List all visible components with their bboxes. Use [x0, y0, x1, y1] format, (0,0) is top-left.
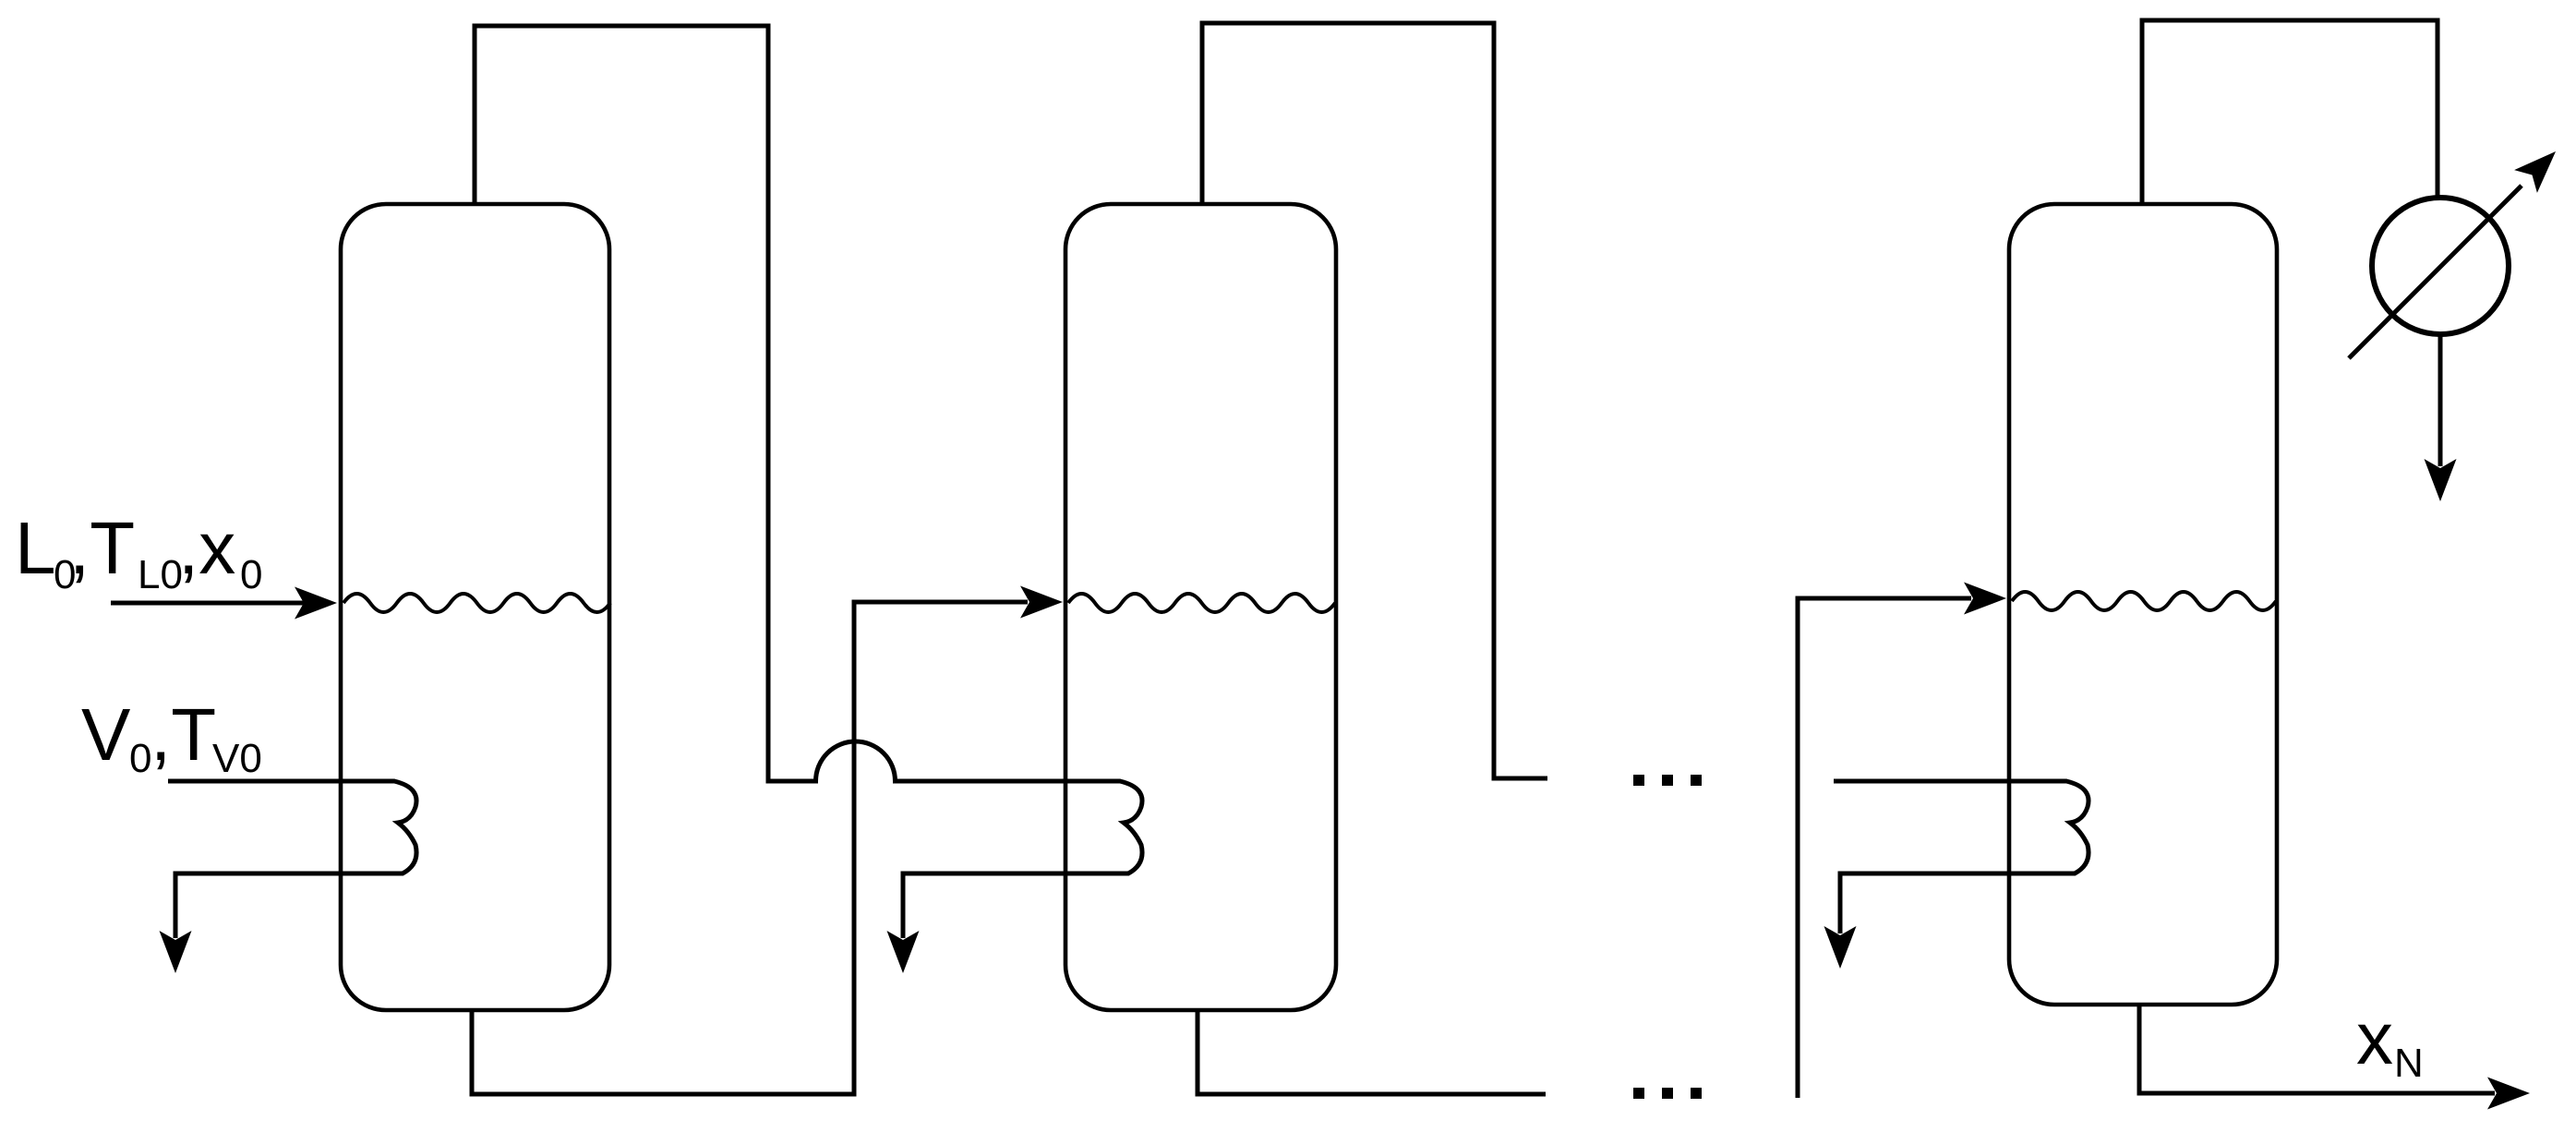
liquid feed riser into vessel N [1798, 598, 1971, 1098]
arrowhead condensate drain vessel 1 [160, 931, 192, 973]
svg-text:,T: ,T [150, 693, 216, 776]
label xN product stream [2356, 997, 2424, 1086]
feed line L0 into vessel 1 [111, 601, 304, 606]
arrowhead condensate drain vessel 2 [887, 931, 920, 973]
svg-text:L: L [15, 507, 56, 589]
evaporator vessel 2 [1065, 204, 1336, 1010]
steam feed V0 through heating coil of vessel 1 and condensate drain of vessel 1 [168, 781, 416, 938]
evaporator vessel N [2009, 204, 2277, 1005]
arrowhead feed into vessel 2 [1020, 586, 1063, 619]
label V0,TV0 steam feed [81, 693, 262, 781]
arrowhead instrument vapor outlet [2425, 459, 2457, 501]
measuring instrument circle (adjustable vapor outlet) [2372, 198, 2509, 334]
arrowhead diagonal adjustment arrow [2514, 151, 2556, 193]
evaporator vessel 1 [341, 204, 609, 1010]
ellipsis dots liquid line [1633, 1088, 1644, 1099]
svg-text:x: x [2356, 997, 2393, 1079]
vapor pipe vessel N to measuring instrument [2142, 20, 2438, 204]
vapor pipe vessel 1 to steam coil of vessel 2 (with jump over liquid line) and condensate drain of vessel 2 [475, 26, 1142, 938]
svg-text:V0: V0 [212, 736, 262, 781]
vapor pipe vessel 2 toward next effect (stub before ellipsis) [1202, 23, 1547, 778]
liquid level wave vessel N [2012, 592, 2276, 610]
liquid outlet vessel 2 toward next effect [1198, 1010, 1546, 1094]
arrowhead feed into vessel N [1964, 583, 2006, 615]
liquid level wave vessel 2 [1068, 594, 1335, 612]
svg-text:0: 0 [129, 736, 151, 781]
svg-text:,x: ,x [178, 507, 235, 589]
instrument vapor outlet shaft down [2438, 336, 2443, 466]
liquid level wave vessel 1 [343, 594, 610, 612]
svg-text:V: V [81, 693, 131, 776]
svg-text:N: N [2394, 1041, 2424, 1086]
arrowhead product outlet xN [2487, 1078, 2530, 1110]
svg-text:L0: L0 [138, 552, 183, 597]
ellipsis dots vapor line [1633, 775, 1644, 786]
vapor line into heating coil of vessel N and condensate drain of vessel N [1834, 781, 2088, 933]
arrowhead condensate drain vessel N [1824, 926, 1857, 969]
svg-text:0: 0 [240, 552, 262, 597]
diagonal adjustment arrow shaft through instrument [2349, 186, 2522, 358]
arrowhead feed L0 into vessel 1 [295, 587, 337, 620]
product outlet line xN from vessel N [2139, 1005, 2495, 1093]
label L0,TL0,x0 feed stream [15, 507, 262, 597]
svg-text:,T: ,T [69, 507, 135, 589]
liquid outlet vessel 1 to feed of vessel 2 [472, 602, 1028, 1094]
